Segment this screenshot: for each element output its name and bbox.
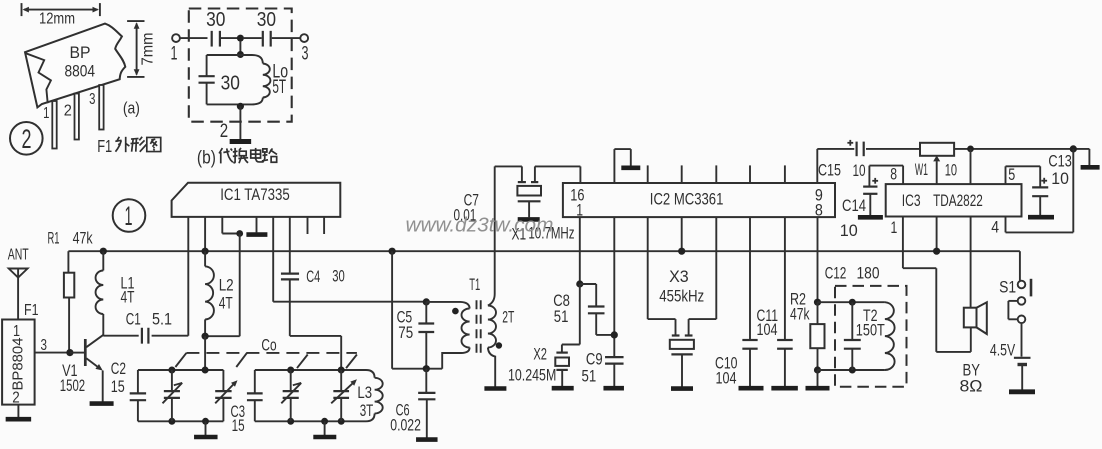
junction dot V1 base node	[66, 349, 73, 356]
wire T1 secondary to X1 (riser)	[494, 166, 496, 294]
tank bottom rail	[207, 103, 241, 105]
junction dot L1 top	[100, 248, 107, 255]
package F1 body	[25, 24, 125, 108]
W1 wiper arrow	[933, 155, 940, 161]
dashed enclosure T2/C12	[835, 286, 907, 387]
svg-text:W1: W1	[915, 161, 928, 179]
terminal 2 stem	[239, 106, 241, 139]
circled figure number 1	[113, 199, 146, 232]
svg-text:C15: C15	[818, 162, 841, 180]
tank bottom junction dot	[237, 103, 244, 110]
capacitor C13 10 (polarized)	[1032, 186, 1048, 188]
IC1 pin 8 stub	[307, 217, 309, 234]
tuned circuit 1 bottom rail	[138, 420, 224, 422]
junction dots variable capacitor 3	[287, 367, 294, 374]
junction dot C8/X2 node	[576, 280, 583, 287]
junction dot C8-C9	[611, 331, 618, 338]
IC1 pin 4 wire down to L2 bottom	[239, 234, 241, 337]
C15 plus sign	[847, 142, 853, 144]
wire node down to tank	[239, 41, 241, 55]
F1 ground stem	[17, 405, 19, 418]
svg-text:12mm: 12mm	[39, 10, 75, 27]
variable capacitor 2 arrow	[215, 382, 235, 403]
switch S1 contacts	[1018, 281, 1026, 289]
svg-text:X3: X3	[669, 268, 689, 286]
svg-text:47k: 47k	[790, 305, 810, 323]
transistor V1 emitter with arrow	[86, 358, 101, 369]
svg-text:T1: T1	[469, 276, 480, 294]
capacitor C4 30	[281, 273, 299, 275]
svg-text:10: 10	[853, 162, 866, 180]
battery 4.5V	[1021, 323, 1023, 357]
IC1 pin 5 ground bar	[246, 232, 267, 237]
variable capacitor 3 branch	[290, 370, 292, 391]
svg-text:IC2 MC3361: IC2 MC3361	[650, 190, 724, 209]
svg-text:BP: BP	[70, 44, 91, 62]
op-amp/IC U1: IC1 TA7335 box	[172, 183, 341, 217]
tuned circuit 1 top rail	[138, 369, 224, 371]
svg-text:1: 1	[576, 201, 583, 219]
capacitor C14 10 (polarized)	[863, 186, 877, 188]
svg-text:1: 1	[171, 43, 178, 64]
svg-text:C13: C13	[1048, 153, 1071, 171]
svg-text:C4: C4	[306, 268, 320, 286]
svg-text:30: 30	[257, 9, 276, 31]
svg-text:104: 104	[757, 321, 778, 339]
svg-text:0.022: 0.022	[390, 417, 421, 435]
svg-text:ANT: ANT	[8, 246, 29, 263]
battery ground bar	[1009, 389, 1035, 394]
svg-text:1: 1	[891, 219, 898, 237]
resistor R2 47k	[817, 302, 819, 324]
gang slash 4	[346, 355, 357, 369]
svg-text:F1: F1	[24, 302, 39, 319]
svg-text:C12: C12	[825, 265, 847, 283]
svg-text:C14: C14	[842, 197, 866, 215]
C10 ground bar	[739, 386, 764, 391]
T1 secondary ground bar	[484, 386, 506, 391]
junction dot bus to T1 tank	[389, 248, 396, 255]
svg-text:10: 10	[1051, 170, 1069, 188]
svg-text:10.245M: 10.245M	[508, 367, 556, 385]
wire bus down to T1 tank bottom	[391, 251, 393, 369]
IC1 pin 3 wire	[221, 217, 223, 234]
X2 ground bar	[552, 386, 574, 391]
tank top rail	[207, 54, 241, 56]
variable capacitor 1 arrow	[163, 383, 183, 403]
package pin 2	[75, 94, 79, 140]
svg-text:R1: R1	[48, 229, 60, 247]
S1 contact bracket	[1008, 300, 1017, 302]
gang slash 1	[175, 353, 186, 367]
svg-text:X2: X2	[533, 346, 547, 364]
svg-text:L2: L2	[219, 277, 234, 295]
svg-text:2T: 2T	[502, 309, 514, 327]
svg-text:1: 1	[125, 201, 133, 231]
T1 primary phase dot	[452, 308, 459, 315]
speaker BY 8ohm	[964, 308, 977, 328]
svg-text:4T: 4T	[121, 289, 135, 307]
svg-text:104: 104	[716, 370, 737, 388]
capacitor C11 104	[784, 217, 786, 340]
svg-text:75: 75	[398, 324, 413, 342]
F1 ground bar	[6, 417, 32, 422]
power bus wire	[68, 250, 1020, 252]
antenna lead wire	[17, 269, 19, 320]
crystal filter X1 10.7MHz	[518, 181, 526, 183]
IC3 pin 1 wire to speaker	[902, 217, 904, 269]
resistor R1	[67, 251, 69, 273]
junction dot pin4 riser	[1070, 145, 1077, 152]
svg-text:(b): (b)	[197, 147, 216, 168]
svg-text:10: 10	[945, 162, 957, 180]
terminal 2 ground bar	[230, 139, 252, 144]
ganged tuning dashed link line Co	[186, 352, 357, 354]
svg-text:2: 2	[64, 103, 72, 120]
capacitor C5 75	[423, 298, 430, 305]
svg-text:F1: F1	[97, 136, 112, 156]
svg-text:7mm: 7mm	[140, 33, 157, 66]
IC1 pin 9 stub	[323, 217, 325, 234]
svg-text:C9: C9	[586, 351, 603, 369]
IC2 pin 4 wire to bus	[681, 217, 683, 251]
C11 ground bar	[771, 386, 798, 391]
top-right ground bar	[1081, 165, 1100, 170]
junction dot R2 bottom	[814, 366, 821, 373]
inductor L3 3T	[366, 370, 375, 378]
filter bottom rail	[818, 369, 885, 371]
variable capacitor 4 arrow	[331, 381, 355, 403]
IC2 pin 1 wire down	[579, 217, 581, 284]
tuned circuit 2 bottom rail	[255, 420, 366, 422]
junction dots tuned circuit 1 center	[202, 367, 209, 374]
IC U3: IC3 TDA2822 box	[886, 184, 1022, 216]
filter F1 box	[2, 320, 35, 405]
C9 ground bar	[603, 386, 624, 391]
capacitor C2 15 branch	[137, 370, 139, 393]
tuned circuit 1 ground bar	[194, 435, 218, 440]
svg-text:S1: S1	[999, 278, 1016, 296]
svg-text:5T: 5T	[272, 77, 286, 98]
IC2 pin 2 top ground hook	[613, 149, 615, 183]
package pin 1	[52, 101, 56, 149]
IC3 pin 8 hook to C14	[902, 166, 904, 185]
variable capacitor 1 branch	[171, 370, 173, 391]
IC U2: IC2 MC3361 box	[563, 183, 835, 217]
top-right chassis drop	[1088, 149, 1090, 165]
svg-text:C1: C1	[126, 311, 141, 329]
capacitor C10 104	[749, 217, 751, 340]
svg-text:2: 2	[220, 121, 228, 142]
variable capacitor 2 branch	[222, 370, 224, 391]
antenna symbol	[9, 269, 28, 278]
package pin 3	[99, 85, 103, 130]
gang slash 2	[236, 353, 247, 367]
bus corner down to S1	[1019, 251, 1021, 281]
IC2 top ground bar	[621, 166, 640, 171]
variable capacitor 3 arrow	[281, 383, 301, 403]
IC3 pin 4 wire to top rail	[1005, 217, 1007, 233]
svg-text:5.1: 5.1	[152, 311, 172, 329]
IC2 top stubs	[647, 165, 649, 183]
IC3 supply pin wire	[970, 149, 972, 184]
svg-text:455kHz: 455kHz	[659, 288, 704, 306]
svg-text:51: 51	[582, 367, 597, 385]
top rail from IC2 to C15	[817, 148, 854, 150]
inductor L1 4T	[102, 251, 104, 270]
F1 pin 3 wire	[35, 352, 70, 354]
wire C1 up to IC1 pin1	[187, 217, 189, 336]
svg-text:15: 15	[232, 417, 245, 435]
svg-text:8Ω: 8Ω	[960, 377, 983, 395]
svg-text:www.dz3tw.com: www.dz3tw.com	[406, 214, 554, 237]
svg-text:4T: 4T	[219, 294, 233, 312]
junction dot L2 bottom	[202, 333, 209, 340]
svg-text:180: 180	[857, 265, 880, 283]
junction dot R2 top	[814, 299, 821, 306]
R2 ground stem	[817, 370, 819, 386]
svg-text:1: 1	[13, 323, 20, 340]
V1 emitter ground bar	[90, 401, 114, 406]
capacitor 30 (series right)	[262, 31, 264, 47]
junction dot IC3 bus	[933, 248, 940, 255]
svg-text:L3: L3	[357, 384, 372, 402]
IC2 top-right pin riser to C15 rail	[816, 149, 818, 183]
gang slash 3	[297, 355, 308, 369]
capacitor C6 0.022	[425, 369, 427, 393]
crystal X2 10.245M	[579, 284, 581, 345]
svg-text:BP8804: BP8804	[10, 338, 27, 391]
transformer T1 core	[476, 300, 478, 353]
svg-text:3T: 3T	[360, 402, 374, 420]
C6 ground bar	[416, 437, 438, 442]
svg-text:5: 5	[1008, 166, 1015, 184]
junction dots C12	[849, 299, 856, 306]
V1 emitter stem	[102, 371, 104, 402]
transformer T1 primary winding	[426, 302, 469, 309]
IC2 pin 9/8 wire down to R2	[817, 217, 819, 302]
C14 ground bar	[858, 215, 883, 220]
wire terminal1 to C30a	[180, 37, 208, 39]
ceramic resonator X3 455kHz	[647, 217, 649, 319]
tank left branch with capacitor 30	[206, 55, 208, 76]
tuned circuit 1 ground stem	[205, 421, 207, 435]
svg-text:(a): (a)	[123, 100, 140, 118]
svg-text:TDA2822: TDA2822	[933, 191, 983, 210]
tuned circuit 2 ground bar	[313, 435, 336, 440]
IC3 center pin to bus	[936, 217, 938, 252]
transformer T1 secondary winding	[488, 294, 495, 306]
svg-text:30: 30	[332, 268, 345, 286]
terminal 3 circle	[300, 34, 308, 42]
svg-text:2: 2	[12, 389, 19, 406]
node junction dot (terminal area)	[237, 35, 244, 42]
dimension arrow 12mm	[21, 3, 23, 16]
svg-text:8804: 8804	[65, 63, 96, 81]
X3 ground bar	[671, 386, 693, 391]
svg-text:47k: 47k	[73, 230, 94, 248]
potentiometer W1 box	[920, 143, 954, 156]
junction dot IC3 supply	[967, 146, 974, 153]
svg-text:30: 30	[221, 71, 240, 94]
IC3 speaker pin wire	[970, 217, 972, 308]
svg-text:1: 1	[43, 105, 49, 122]
wire C30b to terminal 3	[272, 37, 301, 39]
junction dots variable capacitor 4	[338, 367, 345, 374]
capacitor C12 180	[851, 302, 853, 340]
X1 ground bar	[518, 217, 540, 222]
tank top junction dot	[237, 51, 244, 58]
IC1 pin 6 wire to T1 top	[272, 217, 274, 302]
wire C30a to node	[221, 37, 240, 39]
svg-text:3: 3	[302, 43, 309, 64]
svg-text:10: 10	[840, 222, 858, 240]
IC1 pin 7 wire with C4	[289, 217, 291, 274]
filter top rail to T2	[818, 301, 885, 303]
capacitor C8 51	[580, 283, 596, 285]
svg-text:150T: 150T	[856, 322, 885, 340]
C13 ground bar	[1028, 215, 1054, 220]
capacitor C15 10 (polarized)	[855, 142, 857, 157]
R2 ground bar	[806, 386, 830, 391]
package facet crack line	[26, 53, 51, 103]
inductor L2 4T	[204, 251, 206, 266]
circled figure number 2	[10, 122, 43, 155]
inductor Lo 5T	[240, 55, 262, 64]
svg-text:4: 4	[991, 219, 999, 237]
svg-text:51: 51	[554, 308, 569, 326]
svg-text:30: 30	[206, 9, 225, 31]
terminal 1 circle	[172, 34, 180, 42]
transistor V1 base bar	[84, 339, 87, 366]
svg-text:C2: C2	[111, 360, 126, 378]
svg-text:IC3: IC3	[902, 191, 921, 210]
inductor T2 150T	[885, 302, 895, 370]
tuned circuit 2 top rail	[255, 369, 366, 371]
IC1 pin 2 wire to bus	[204, 217, 206, 251]
wire W1 to right	[954, 148, 1089, 150]
IC2 pin 2 wire / capacitor C9 51	[613, 217, 615, 357]
transistor V1 collector	[86, 335, 103, 347]
junction dot IC1 pin2 / L2 top	[202, 248, 209, 255]
svg-text:3: 3	[41, 337, 48, 354]
S1 slider bar	[1030, 279, 1033, 297]
IC3 pin 5 hook to C13	[1005, 166, 1007, 184]
dimension arrow 7mm	[127, 20, 144, 22]
dashed enclosure of equivalent circuit	[189, 9, 292, 122]
wire node to C30b	[243, 37, 262, 39]
fixed capacitor branch (circuit 2)	[254, 370, 256, 393]
svg-text:3: 3	[89, 91, 95, 108]
C14 plus sign	[872, 180, 878, 182]
variable capacitor 4 branch	[340, 370, 342, 391]
T1 secondary phase dot	[496, 342, 502, 348]
svg-text:15: 15	[111, 378, 125, 396]
capacitor C1 5.1	[103, 335, 138, 337]
wire C15 to W1	[866, 148, 920, 150]
svg-text:Co: Co	[261, 336, 276, 354]
IC1 pin 5 ground stub	[256, 217, 258, 233]
svg-text:4.5V: 4.5V	[990, 341, 1015, 359]
C13 plus sign	[1041, 180, 1047, 182]
svg-text:2: 2	[22, 124, 32, 154]
tuned circuit 2 ground stem	[321, 418, 328, 425]
capacitor 30 (series left)	[211, 31, 213, 47]
junction dots tuned circuit 1 left branch	[168, 367, 175, 374]
svg-text:IC1 TA7335: IC1 TA7335	[220, 185, 290, 204]
svg-text:8: 8	[815, 201, 823, 219]
junction dot IC2 pin4 bus	[678, 248, 685, 255]
svg-text:8: 8	[890, 166, 897, 184]
svg-text:1502: 1502	[60, 377, 85, 395]
wire L2 bottom to tuned circuit 1	[204, 336, 206, 370]
junction dot IC1 pin3-4	[236, 230, 243, 237]
transistor V1 base wire	[70, 352, 84, 354]
